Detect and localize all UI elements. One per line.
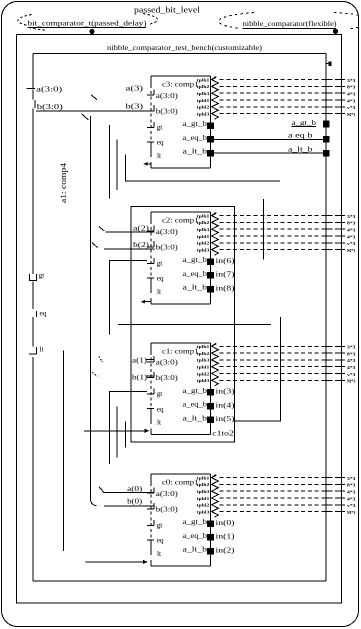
wire v crossing c2 generic rows [262, 199, 264, 260]
svg-text:a_lt_b: a_lt_b [183, 414, 208, 422]
c0 dashed generic wire 5 [220, 504, 342, 506]
wire to c1 gt (corner) [109, 392, 147, 465]
svg-text:tphl1: tphl1 [197, 235, 210, 239]
wire a(0) [104, 492, 155, 494]
c3 dashed generic wire 1 [220, 79, 342, 81]
c1 dashed generic wire 2 [220, 352, 342, 354]
comparator block c1: comp1 [151, 342, 211, 344]
c3 dashed generic wire 2 [220, 85, 342, 87]
bus slash on a bus [91, 95, 97, 100]
c1 port eq [147, 408, 154, 410]
c1 pin a_gt_b [207, 389, 214, 396]
c0 port lt [150, 549, 152, 556]
svg-text:c1to2: c1to2 [212, 429, 234, 438]
svg-text:c1: comp1: c1: comp1 [162, 346, 199, 355]
svg-text:in(1): in(1) [216, 532, 236, 541]
hook from b bus into b(0) wire [90, 499, 96, 506]
svg-text:gt: gt [157, 520, 164, 529]
c1 dashed generic wire 3 [220, 359, 342, 361]
c0 port eq [147, 539, 154, 541]
wire b(0) [104, 505, 155, 507]
svg-text:tplh2: tplh2 [197, 352, 210, 356]
svg-text:a(1): a(1) [132, 355, 148, 364]
svg-text:4*3: 4*3 [347, 92, 356, 97]
c0 port a(3:0) [147, 492, 154, 494]
svg-text:a_gt_b: a_gt_b [183, 120, 208, 128]
svg-text:b(0): b(0) [127, 496, 143, 505]
svg-text:a_eq_b: a_eq_b [183, 532, 208, 540]
c3 dashed generic wire 6 [220, 113, 342, 115]
c2 dashed generic wire 3 [220, 228, 342, 230]
c2 dashed generic wire 2 [220, 221, 342, 223]
svg-text:gt: gt [157, 258, 164, 267]
wire lt feedback c3 (L shape) [126, 155, 280, 182]
wire c3 a_eq_b to inner box edge [214, 138, 323, 140]
svg-text:in(4): in(4) [216, 400, 236, 409]
c2 dashed generic wire 4 [220, 235, 342, 237]
svg-text:a(3:0): a(3:0) [36, 85, 63, 94]
dashed ellipse (partial) around bit_comparator_t(passed_delay) [18, 15, 32, 26]
svg-text:tplh3: tplh3 [197, 490, 210, 494]
c2 generic zigzag pins [212, 213, 219, 256]
c0 dashed generic wire 1 [220, 477, 342, 479]
arrow stub into c2 lt area [142, 301, 151, 303]
node dot under nibble_comparator label [333, 29, 338, 34]
c2 pin a_eq_b [207, 272, 214, 279]
c3 pin a_gt_b [207, 122, 214, 129]
svg-text:4*3: 4*3 [347, 234, 356, 239]
svg-text:v*3: v*3 [347, 503, 356, 508]
svg-text:3*3: 3*3 [347, 214, 356, 219]
node dot under bit_comparator label [89, 29, 94, 34]
svg-text:4*3: 4*3 [347, 365, 356, 370]
wire+arrow into c1 lt [84, 430, 146, 432]
c0 generic zigzag pins [212, 475, 219, 517]
block c1to2 enclosure [131, 206, 234, 442]
svg-text:v*3: v*3 [347, 105, 356, 110]
svg-text:a(0): a(0) [127, 484, 143, 493]
divider wire inside c1to2 [118, 324, 271, 326]
vertical b bus wire [89, 116, 91, 499]
slash tap a(2) [99, 227, 105, 231]
svg-text:tplh2: tplh2 [197, 483, 210, 487]
c0 port b(3:0) [147, 508, 154, 510]
svg-text:b(3): b(3) [126, 102, 144, 111]
c1 port lt [150, 417, 152, 424]
svg-text:tplh2: tplh2 [197, 221, 210, 225]
svg-text:b(3:0): b(3:0) [37, 102, 64, 111]
c0 pin a_eq_b [207, 534, 214, 541]
wire lt chain down left side [62, 351, 64, 551]
junction square a_lt_b on inner box edge [323, 150, 330, 157]
c1 pin a_lt_b [207, 417, 214, 424]
wire b(2) [104, 248, 155, 250]
svg-text:M*3: M*3 [347, 379, 356, 384]
c2 dashed generic wire 6 [220, 249, 342, 251]
svg-text:in(3): in(3) [216, 387, 236, 396]
c0 pin a_gt_b [207, 520, 214, 527]
svg-text:tplh1: tplh1 [197, 345, 210, 349]
svg-text:tphl2: tphl2 [197, 242, 210, 246]
comparator block c0: comp1 [151, 473, 211, 475]
c1 dashed generic wire 6 [220, 379, 342, 381]
comparator block c2: comp1 [151, 211, 211, 213]
svg-text:tplh1: tplh1 [197, 476, 210, 480]
svg-text:8*3: 8*3 [347, 351, 356, 356]
wire from c1 in(5) up right side [235, 317, 280, 421]
svg-text:b(3:0): b(3:0) [156, 242, 179, 251]
underline of nibble_comparator label [243, 27, 336, 29]
svg-text:4*3: 4*3 [347, 490, 356, 495]
svg-text:a eq b: a eq b [288, 132, 313, 140]
svg-text:4*3: 4*3 [347, 98, 356, 103]
svg-text:tphl2: tphl2 [197, 106, 210, 110]
c3 pin a_eq_b [207, 136, 214, 143]
svg-text:eq: eq [157, 536, 164, 545]
svg-text:a(3:0): a(3:0) [156, 358, 179, 367]
svg-text:a(3:0): a(3:0) [156, 91, 179, 100]
svg-text:M*3: M*3 [347, 248, 356, 253]
svg-text:a1: comp4: a1: comp4 [59, 162, 68, 203]
svg-text:in(8): in(8) [216, 283, 236, 292]
c3 port b(3:0) [147, 110, 154, 112]
svg-text:gt: gt [39, 271, 46, 280]
svg-text:in(6): in(6) [216, 256, 236, 265]
c2 dashed generic wire 1 [220, 215, 342, 217]
slash tap a(1) [99, 356, 103, 362]
c0 dashed generic wire 2 [220, 483, 342, 485]
wire v eq feedback c3 [116, 140, 118, 190]
svg-text:8*3: 8*3 [347, 85, 356, 90]
svg-text:tphl1: tphl1 [197, 99, 210, 103]
svg-text:b(1): b(1) [132, 373, 148, 382]
svg-text:in(2): in(2) [216, 545, 236, 554]
c3 dashed generic wire 3 [220, 92, 342, 94]
c0 port gt [147, 525, 154, 527]
c2 port a(3:0) [147, 230, 154, 232]
svg-text:a_gt_b: a_gt_b [292, 119, 317, 127]
c0 dashed generic wire 4 [220, 497, 342, 499]
slash tap b(1) [92, 372, 97, 376]
svg-text:a_eq_b: a_eq_b [183, 270, 208, 278]
comparator block c3: comp1 [151, 75, 211, 77]
c1 port gt [147, 393, 154, 395]
c2 pin a_lt_b [207, 286, 214, 293]
svg-text:v*3: v*3 [347, 241, 356, 246]
svg-text:eq: eq [40, 308, 47, 317]
svg-text:tphl2: tphl2 [197, 372, 210, 376]
port eq of a1 [36, 311, 38, 317]
c2 dashed generic wire 5 [220, 242, 342, 244]
svg-text:tplh1: tplh1 [197, 78, 210, 82]
c1 pin a_eq_b [207, 403, 214, 410]
svg-text:passed_bit_level: passed_bit_level [134, 5, 201, 15]
c0 dashed generic wire 3 [220, 490, 342, 492]
svg-text:tplh2: tplh2 [197, 85, 210, 89]
dashed ellipse (partial arcs) around nibble_comparator(flexible) [219, 13, 254, 29]
svg-text:gt: gt [157, 389, 164, 398]
svg-text:eq: eq [157, 404, 164, 413]
svg-text:in(5): in(5) [216, 414, 236, 423]
svg-text:tplh3: tplh3 [197, 92, 210, 96]
arrow stub into c3 lt area [145, 163, 151, 165]
svg-text:M*3: M*3 [347, 112, 356, 117]
svg-text:8*3: 8*3 [347, 221, 356, 226]
svg-text:3*3: 3*3 [347, 78, 356, 83]
svg-text:b(3:0): b(3:0) [156, 106, 179, 115]
svg-text:a_gt_b: a_gt_b [183, 256, 208, 264]
svg-text:c0: comp1: c0: comp1 [162, 478, 199, 487]
svg-text:a_lt_b: a_lt_b [183, 148, 208, 156]
junction square a_gt_b on inner box edge [323, 121, 330, 128]
svg-text:a_lt_b: a_lt_b [288, 145, 313, 153]
svg-text:b(2): b(2) [133, 240, 150, 249]
svg-text:4*3: 4*3 [347, 496, 356, 501]
c2 port eq [147, 277, 154, 279]
c3 port gt [147, 127, 154, 129]
c0 dashed generic wire 6 [220, 511, 342, 513]
c2 pin a_gt_b [207, 258, 214, 265]
svg-text:a_gt_b: a_gt_b [183, 518, 208, 526]
port b(3:0) of a1 [34, 100, 36, 108]
c3 dashed generic wire 4 [220, 99, 342, 101]
svg-text:in(0): in(0) [216, 518, 236, 527]
wire b(3:0) bus to c3 [36, 110, 155, 112]
wire+arrow into c0 lt [86, 561, 145, 563]
svg-text:tphl2: tphl2 [197, 504, 210, 508]
svg-text:eq: eq [157, 274, 164, 283]
stub wire a(1) [146, 358, 154, 360]
c1 dashed generic wire 4 [220, 366, 342, 368]
svg-text:a_lt_b: a_lt_b [183, 284, 208, 292]
svg-text:a_gt_b: a_gt_b [183, 387, 208, 395]
svg-text:in(7): in(7) [216, 270, 236, 279]
svg-text:tphl1: tphl1 [197, 366, 210, 370]
c1 dashed generic wire 1 [220, 345, 342, 347]
svg-text:a_eq_b: a_eq_b [183, 134, 208, 142]
bus slash tap to b vertical bus [82, 114, 89, 120]
slash tap a(0) [99, 487, 104, 493]
svg-text:tplh3: tplh3 [197, 359, 210, 363]
c3 port eq [147, 141, 154, 143]
svg-text:v*3: v*3 [347, 372, 356, 377]
c2 port lt [150, 287, 152, 294]
c1 dashed generic wire 5 [220, 373, 342, 375]
svg-text:nibble_comparator_test_bench(c: nibble_comparator_test_bench(customizabl… [107, 43, 262, 52]
svg-text:b(3:0): b(3:0) [156, 504, 179, 513]
svg-text:tphl3: tphl3 [197, 248, 210, 252]
svg-text:nibble_comparator(flexible): nibble_comparator(flexible) [243, 19, 337, 28]
nibble_comparator instance box a1: comp4 [33, 53, 326, 55]
port gt of a1 [30, 274, 37, 281]
svg-text:4*3: 4*3 [347, 358, 356, 363]
svg-text:gt: gt [157, 122, 164, 131]
c2 port gt [147, 263, 154, 265]
svg-text:M*3: M*3 [347, 510, 356, 515]
c1 port b(3:0) [147, 377, 154, 379]
c1 port a(3:0) [147, 361, 154, 363]
c3 pin a_lt_b [207, 150, 214, 157]
svg-text:b(3:0): b(3:0) [156, 373, 179, 382]
svg-text:c3: comp1: c3: comp1 [162, 80, 199, 89]
svg-text:a(2): a(2) [133, 223, 150, 232]
svg-text:tphl3: tphl3 [197, 379, 210, 383]
port a(3:0) of a1 [32, 81, 34, 89]
junction square a_eq_b on inner box edge [323, 136, 330, 143]
svg-text:a(3): a(3) [126, 84, 144, 93]
binding arrow on inner box right edge [326, 63, 329, 65]
wire to c2 gt (corner, runs down) [109, 261, 147, 335]
c3 port lt [150, 151, 152, 158]
svg-text:a(3:0): a(3:0) [156, 489, 179, 498]
svg-text:eq: eq [157, 138, 164, 147]
svg-text:tphl3: tphl3 [197, 510, 210, 514]
slash tap b(2) [92, 243, 98, 248]
svg-text:a_eq_b: a_eq_b [183, 401, 208, 409]
svg-text:c2: comp1: c2: comp1 [162, 216, 199, 225]
svg-text:bit_comparator_t(passed_delay): bit_comparator_t(passed_delay) [28, 18, 147, 27]
c3 dashed generic wire 5 [220, 106, 342, 108]
c0 pin a_lt_b [207, 548, 214, 555]
svg-text:tplh3: tplh3 [197, 228, 210, 232]
svg-text:3*3: 3*3 [347, 476, 356, 481]
svg-text:8*3: 8*3 [347, 483, 356, 488]
svg-text:a_lt_b: a_lt_b [183, 546, 208, 554]
wire c3 a_lt_b to inner box edge [214, 152, 323, 154]
stub wire b(1) [146, 375, 154, 377]
wire v eq region c1 [116, 407, 118, 458]
svg-text:tphl1: tphl1 [197, 497, 210, 501]
wire v lt region c1 [125, 422, 127, 448]
c3 generic zigzag pins [212, 77, 219, 120]
svg-text:tphl3: tphl3 [197, 112, 210, 116]
wire a(2) [106, 231, 155, 233]
svg-text:tplh1: tplh1 [197, 214, 210, 218]
svg-text:4*3: 4*3 [347, 228, 356, 233]
wire v gt feedback c3 [109, 125, 111, 198]
port lt of a1 [36, 347, 38, 354]
c3 port a(3:0) [147, 94, 154, 96]
svg-text:3*3: 3*3 [347, 345, 356, 350]
c2 port b(3:0) [147, 246, 154, 248]
c1 generic zigzag pins [212, 343, 219, 386]
underline of bit_comparator label [28, 26, 147, 28]
svg-text:a(3:0): a(3:0) [156, 227, 179, 236]
